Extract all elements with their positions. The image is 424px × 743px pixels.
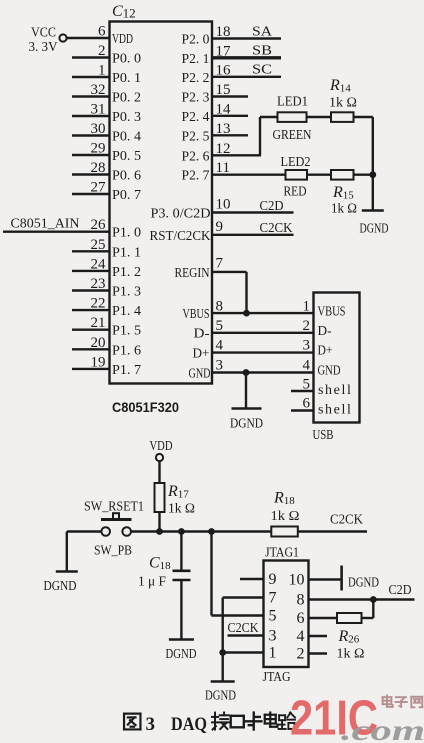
svg-text:7: 7: [216, 256, 224, 272]
resistor R17 body: [155, 483, 165, 512]
JTAG pin number 5: [269, 608, 277, 625]
wire JTAG pin8 / net C2D: [309, 598, 415, 600]
wire VBUS: [212, 312, 314, 314]
USB pin label D+: [318, 344, 333, 359]
wire to pin 29 (P0. 5): [72, 154, 110, 156]
svg-text:P2. 1: P2. 1: [182, 52, 210, 67]
resistor R14 value 1k&#937;: [329, 96, 357, 111]
node VCC: [59, 34, 66, 41]
label VCC: [31, 26, 56, 41]
wire net SC: [212, 76, 281, 78]
svg-text:C2D: C2D: [389, 583, 412, 598]
wire C18 to ground: [180, 580, 182, 639]
svg-text:LED1: LED1: [277, 95, 308, 110]
label SA: [252, 25, 273, 40]
svg-text:19: 19: [91, 354, 106, 370]
svg-text:JTAG1: JTAG1: [265, 546, 299, 561]
stub JTAG pin9: [240, 578, 264, 580]
wire to pin 6 (VDD): [67, 37, 110, 39]
label LED1: [277, 95, 308, 110]
wire D+: [212, 351, 314, 353]
caption text DAQ: [171, 714, 207, 735]
svg-text:1: 1: [98, 63, 106, 79]
JTAG pin number 3: [269, 628, 277, 645]
svg-text:20: 20: [91, 335, 106, 351]
svg-text:shell: shell: [318, 403, 352, 418]
svg-text:P2. 0: P2. 0: [182, 33, 210, 48]
USB pin label GND: [318, 364, 341, 379]
svg-text:C2CK: C2CK: [260, 221, 293, 236]
label C2D: [260, 199, 284, 214]
IC pin label P0. 7: [112, 188, 141, 203]
USB pin number 3: [303, 338, 311, 354]
logo char 网 (电子网): [411, 697, 422, 708]
svg-text:P0. 0: P0. 0: [112, 52, 141, 67]
svg-text:VBUS: VBUS: [318, 305, 346, 320]
JTAG pin number 2: [297, 646, 305, 663]
IC pin label P1. 5: [112, 324, 141, 339]
IC pin label P2. 1: [182, 52, 210, 67]
stub P2.3: [212, 95, 248, 97]
LED D1 (LED1) body: [278, 112, 307, 122]
stub JTAG pin2: [309, 652, 328, 654]
JTAG pin number 10: [289, 572, 305, 589]
IC pin label P0. 3: [112, 110, 141, 125]
IC pin label P2. 2: [182, 71, 210, 86]
svg-text:.com: .com: [341, 714, 424, 743]
wire R15 to junction: [354, 173, 373, 175]
IC pin label P2. 7: [182, 169, 210, 184]
wire JTAG pin6 to R26: [309, 617, 338, 619]
svg-text:P0. 3: P0. 3: [112, 110, 141, 125]
svg-text:P0. 6: P0. 6: [112, 169, 141, 184]
JTAG pin number 4: [297, 628, 305, 645]
svg-text:4: 4: [297, 628, 305, 645]
logo char 子 (电子网): [395, 697, 406, 707]
resistor R26 label: [338, 628, 360, 646]
wire bus to JTAG pin5: [212, 532, 264, 616]
label SC: [252, 63, 272, 78]
svg-text:8: 8: [297, 592, 305, 609]
svg-text:P0. 2: P0. 2: [112, 91, 141, 106]
wire to pin 30 (P0. 4): [72, 134, 110, 136]
label JTAG: [263, 670, 291, 685]
pin number 14: [216, 101, 232, 117]
IC pin label P2. 5: [182, 129, 210, 144]
pin number 10: [216, 197, 231, 213]
svg-text:1: 1: [269, 645, 277, 662]
pin number 23: [91, 276, 106, 292]
svg-text:23: 23: [91, 276, 106, 292]
wire REGIN to VBUS net: [212, 272, 247, 313]
svg-text:2: 2: [297, 646, 305, 663]
pin number 17: [216, 43, 232, 59]
logo char 电 (电子网): [383, 695, 393, 706]
IC pin label RST/C2CK: [150, 229, 211, 244]
svg-text:D-: D-: [194, 327, 210, 342]
wire to pin 2 (P0. 0): [72, 56, 110, 58]
IC pin label P0. 0: [112, 52, 141, 67]
JTAG pin number 9: [269, 571, 277, 588]
svg-text:6: 6: [297, 610, 305, 627]
wire R17 to bus: [158, 512, 160, 532]
svg-text:SC: SC: [252, 63, 272, 78]
svg-text:P0. 4: P0. 4: [112, 130, 141, 145]
svg-text:P0. 7: P0. 7: [112, 188, 141, 203]
pin number 30: [91, 121, 106, 137]
label SW_PB: [94, 544, 132, 559]
svg-text:4: 4: [303, 358, 311, 374]
svg-text:3: 3: [269, 628, 277, 645]
svg-text:C8051F320: C8051F320: [112, 399, 179, 415]
wire JTAG pin1: [223, 651, 264, 653]
capacitor C18 value 1uF: [138, 575, 166, 590]
wire to pin 22 (P1. 4): [72, 309, 110, 311]
svg-text:2: 2: [303, 318, 311, 334]
pin number 3: [216, 358, 224, 374]
svg-text:1: 1: [303, 299, 311, 315]
svg-text:P3. 0/C2D: P3. 0/C2D: [151, 207, 211, 222]
caption char 口: [231, 716, 244, 727]
JTAG1 connector body: [264, 561, 309, 668]
resistor R18 label: [273, 490, 295, 508]
svg-text:DGND: DGND: [166, 646, 197, 661]
svg-text:P2. 7: P2. 7: [182, 169, 210, 184]
svg-text:4: 4: [216, 338, 224, 354]
svg-text:1k Ω: 1k Ω: [337, 647, 365, 662]
caption char 图: [124, 714, 140, 730]
wire to pin 19 (P1. 7): [72, 368, 110, 370]
IC pin label P3.0/C2D: [151, 207, 211, 222]
logo .com: [341, 714, 424, 743]
svg-text:DGND: DGND: [348, 575, 379, 590]
wire to pin 21 (P1. 5): [72, 329, 110, 331]
USB pin label VBUS: [318, 305, 346, 320]
stub JTAG pin10: [309, 578, 342, 580]
switch SW_PB contact right: [122, 527, 131, 536]
wire JTAG pin7/pin1 to ground: [221, 598, 223, 682]
label VDD (bottom): [150, 439, 173, 454]
wire LED2 to R15: [307, 173, 331, 175]
IC pin label GND: [189, 367, 211, 382]
resistor R17 value 1k&#937;: [168, 502, 195, 517]
svg-text:31: 31: [91, 102, 106, 118]
IC pin label P2. 4: [182, 110, 210, 125]
IC pin label P0. 2: [112, 91, 141, 106]
ground DGND (LED net): [362, 209, 384, 212]
junction R17/bus: [156, 528, 163, 535]
svg-text:C2D: C2D: [260, 199, 284, 214]
pin number 1: [98, 63, 106, 79]
pin number 13: [216, 121, 231, 137]
wire R18 to C2CK: [298, 530, 367, 532]
label DGND (LED net): [360, 221, 389, 236]
wire reset bus: [131, 530, 271, 532]
resistor R26 body: [337, 613, 362, 623]
IC pin label REGIN: [175, 266, 210, 281]
label GREEN: [273, 128, 312, 143]
IC pin label VDD: [112, 32, 133, 47]
pin number 31: [91, 102, 106, 118]
termination bar DGND (pin10): [340, 566, 343, 591]
svg-text:1k Ω: 1k Ω: [271, 509, 300, 524]
svg-text:5: 5: [303, 377, 311, 393]
IC pin label D-: [194, 327, 210, 342]
svg-text:10: 10: [216, 197, 231, 213]
pin number 20: [91, 335, 106, 351]
switch SW_PB contact left: [101, 527, 110, 536]
svg-text:shell: shell: [318, 383, 352, 398]
wire to pin 20 (P1. 6): [72, 348, 110, 350]
label DGND (pin10): [348, 575, 379, 590]
svg-text:VCC: VCC: [31, 26, 56, 41]
IC pin label P0. 6: [112, 169, 141, 184]
svg-text:9: 9: [216, 219, 224, 235]
resistor R15 value 1k&#937;: [331, 202, 357, 217]
label C2D (JTAG): [389, 583, 412, 598]
IC U1 part label C8051F320: [112, 399, 179, 415]
svg-text:1k Ω: 1k Ω: [331, 202, 357, 217]
junction JTAG drop/bus: [208, 528, 215, 535]
pin number 9: [216, 219, 224, 235]
wire R14 to junction: [354, 117, 373, 175]
svg-text:P1. 2: P1. 2: [112, 265, 141, 280]
caption char 路: [279, 713, 295, 729]
wire to pin 28 (P0. 6): [72, 173, 110, 175]
svg-text:24: 24: [91, 256, 107, 272]
caption text 3: [146, 714, 156, 735]
USB pin number 6: [303, 396, 311, 412]
IC pin label P2. 3: [182, 91, 210, 106]
svg-text:P1. 0: P1. 0: [112, 226, 141, 241]
label DGND (USB GND): [230, 416, 263, 431]
wire net C2D (pin10): [212, 211, 294, 213]
svg-text:7: 7: [269, 590, 277, 607]
svg-text:D+: D+: [318, 344, 333, 359]
IC pin label P1. 2: [112, 265, 141, 280]
junction REGIN/VBUS: [243, 310, 250, 317]
pin number 19: [91, 354, 106, 370]
pin number 25: [91, 237, 106, 253]
IC pin label P2. 6: [182, 149, 210, 164]
wire P2.6 to LED1: [212, 117, 278, 155]
label C2CK (JTAG): [228, 621, 259, 636]
pin number 16: [216, 62, 232, 78]
stub USB pin6: [291, 409, 314, 411]
svg-text:SW_PB: SW_PB: [94, 544, 132, 559]
svg-text:1k Ω: 1k Ω: [329, 96, 357, 111]
JTAG pin number 1: [269, 645, 277, 662]
wire GND: [212, 371, 314, 373]
pin number 24: [91, 256, 107, 272]
svg-text:1k Ω: 1k Ω: [168, 502, 195, 517]
pin number 6: [98, 24, 106, 40]
svg-text:P0. 5: P0. 5: [112, 149, 141, 164]
wire VDD to R17: [158, 461, 160, 483]
svg-text:P1. 4: P1. 4: [112, 304, 141, 319]
IC pin label D+: [193, 347, 210, 362]
resistor R14 body: [331, 112, 354, 122]
svg-text:C8051_AIN: C8051_AIN: [11, 217, 80, 232]
svg-text:P1. 7: P1. 7: [112, 363, 141, 378]
USB pin number 2: [303, 318, 311, 334]
svg-text:P2. 6: P2. 6: [182, 149, 210, 164]
svg-text:SA: SA: [252, 25, 273, 40]
junction LED/R net: [369, 171, 376, 178]
pin number 32: [91, 82, 106, 98]
wire junction to DGND: [372, 175, 374, 211]
wire switch to ground elbow: [67, 532, 102, 572]
svg-text:6: 6: [303, 396, 311, 412]
wire net SA: [212, 37, 281, 39]
stub USB pin5: [291, 390, 314, 392]
svg-text:3: 3: [303, 338, 311, 354]
wire to pin 23 (P1. 3): [72, 289, 110, 291]
svg-text:GREEN: GREEN: [273, 128, 312, 143]
label C2CK (reset net): [330, 513, 363, 528]
ground DGND (switch): [56, 570, 78, 573]
svg-text:DGND: DGND: [44, 578, 77, 593]
switch SW_PB actuator: [101, 513, 132, 519]
label DGND (JTAG): [205, 688, 236, 703]
IC U1 reference designator C12: [112, 3, 136, 21]
JTAG pin number 6: [297, 610, 305, 627]
wire to pin 32 (P0. 2): [72, 95, 110, 97]
label JTAG1: [265, 546, 299, 561]
wire P2.7 to LED2: [212, 173, 286, 175]
svg-text:3. 3V: 3. 3V: [29, 40, 58, 55]
resistor R15 body: [331, 170, 354, 180]
pin number 11: [216, 160, 230, 176]
wire net SB: [212, 56, 281, 59]
USB pin label D-: [318, 324, 332, 339]
label net C8051_AIN: [11, 217, 80, 232]
svg-text:C2CK: C2CK: [228, 621, 259, 636]
label RED: [284, 185, 307, 200]
JTAG pin number 8: [297, 592, 305, 609]
svg-text:JTAG: JTAG: [263, 670, 291, 685]
label 3.3V: [29, 40, 58, 55]
wire to pin 25 (P1. 1): [72, 250, 110, 252]
svg-text:5: 5: [269, 608, 277, 625]
svg-text:P0. 1: P0. 1: [112, 71, 141, 86]
pin number 12: [216, 141, 231, 157]
wire to pin 1 (P0. 1): [72, 76, 110, 78]
label SB: [252, 44, 272, 59]
wire to pin 24 (P1. 2): [72, 270, 110, 272]
svg-text:26: 26: [91, 217, 107, 233]
svg-text:USB: USB: [313, 428, 334, 443]
svg-text:GND: GND: [318, 364, 341, 379]
svg-text:RED: RED: [284, 185, 307, 200]
USB pin number 4: [303, 358, 311, 374]
svg-text:6: 6: [98, 24, 106, 40]
pin number 29: [91, 141, 106, 157]
svg-text:28: 28: [91, 160, 106, 176]
svg-text:29: 29: [91, 141, 106, 157]
svg-text:1 μ F: 1 μ F: [138, 575, 166, 590]
resistor R26 value 1k&#937;: [337, 647, 365, 662]
svg-text:2: 2: [98, 43, 106, 59]
svg-text:9: 9: [269, 571, 277, 588]
svg-text:SB: SB: [252, 44, 272, 59]
junction GND/DGND: [243, 369, 250, 376]
svg-text:DAQ: DAQ: [171, 714, 207, 735]
pin number 4: [216, 338, 224, 354]
pin number 5: [216, 318, 224, 334]
svg-text:DGND: DGND: [360, 221, 389, 236]
pin number 7: [216, 256, 224, 272]
wire LED1 to R14: [307, 116, 332, 118]
stub JTAG pin4: [309, 635, 328, 637]
svg-text:C12: C12: [112, 3, 136, 21]
logo 21IC: [290, 692, 378, 743]
svg-text:VDD: VDD: [112, 32, 133, 47]
IC pin label P0. 4: [112, 130, 141, 145]
pin number 28: [91, 160, 106, 176]
LED D2 (LED2) body: [286, 170, 308, 180]
wire JTAG pin7: [223, 596, 264, 598]
JTAG pin number 7: [269, 590, 277, 607]
ground DGND (USB GND): [232, 407, 262, 410]
caption char 电: [265, 713, 278, 727]
IC pin label VBUS: [183, 307, 210, 322]
resistor R18 body: [271, 527, 298, 537]
pin number 8: [216, 299, 224, 315]
svg-text:P2. 5: P2. 5: [182, 129, 210, 144]
svg-text:P2. 3: P2. 3: [182, 91, 210, 106]
wire to pin 31 (P0. 3): [72, 115, 110, 117]
label DGND (switch): [44, 578, 77, 593]
label LED2: [281, 155, 311, 170]
label SW_RSET1: [84, 500, 144, 515]
svg-text:DGND: DGND: [205, 688, 236, 703]
svg-text:P2. 2: P2. 2: [182, 71, 210, 86]
IC pin label P0. 1: [112, 71, 141, 86]
junction C18/bus: [178, 528, 185, 535]
svg-text:GND: GND: [189, 367, 211, 382]
caption char 卡: [246, 713, 261, 730]
label USB: [313, 428, 334, 443]
pin number 27: [91, 180, 107, 196]
wire net C2CK (pin9): [212, 234, 294, 236]
stub P2.4: [212, 115, 248, 117]
USB pin number 5: [303, 377, 311, 393]
IC pin label P0. 5: [112, 149, 141, 164]
svg-text:25: 25: [91, 237, 106, 253]
svg-text:P1. 6: P1. 6: [112, 343, 141, 358]
resistor R17 label: [167, 483, 189, 501]
wire GND to DGND: [245, 373, 247, 409]
svg-text:D+: D+: [193, 347, 210, 362]
capacitor C18 plates: [173, 571, 191, 580]
ground DGND (C18): [169, 638, 194, 641]
resistor R14 label: [329, 77, 351, 95]
resistor R18 value 1k&#937;: [271, 509, 300, 524]
svg-text:VDD: VDD: [150, 439, 173, 454]
svg-text:21: 21: [91, 315, 106, 331]
IC pin label P1. 7: [112, 363, 141, 378]
svg-text:D-: D-: [318, 324, 332, 339]
svg-text:3: 3: [146, 714, 156, 735]
caption char 接: [212, 713, 228, 730]
IC U1 C8051F320 body: [110, 22, 213, 384]
svg-text:3: 3: [216, 358, 224, 374]
wire to pin 27 (P0. 7): [72, 193, 110, 195]
wire JTAG pin3: [228, 634, 264, 636]
pin number 22: [91, 296, 106, 312]
wire to pin 26 (P1. 0): [3, 230, 110, 232]
